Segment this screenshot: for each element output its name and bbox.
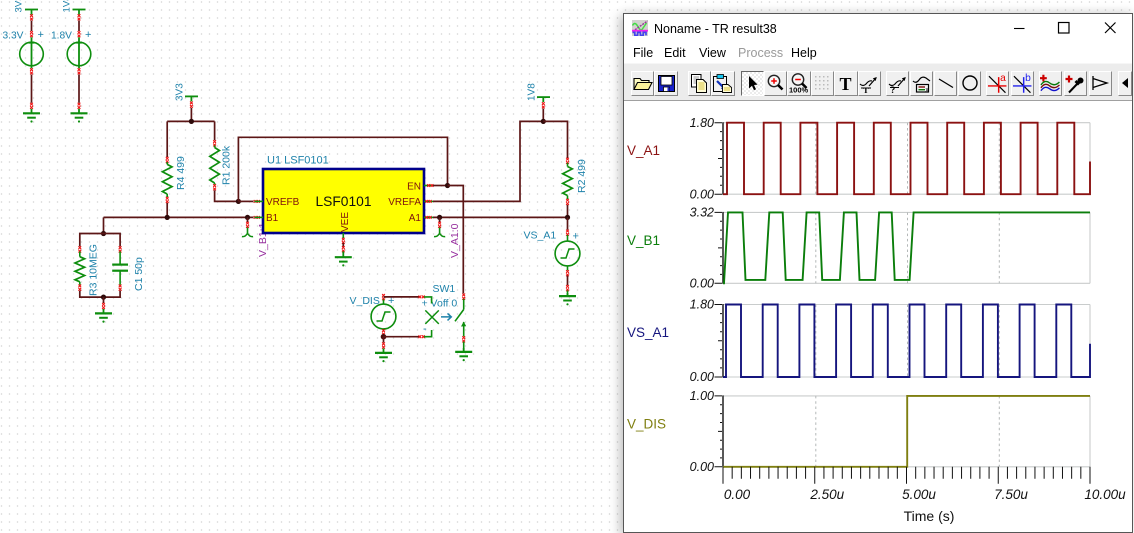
svg-text:3V3: 3V3 [175,83,186,101]
wire 3V3 to R1 [214,121,216,140]
junction RC bottom [101,295,106,300]
junction B1 probe [245,215,250,220]
plot V_A1 [627,116,1090,201]
junction V_DIS minus [381,334,387,340]
resistor R4 499 [162,156,187,203]
wire A1 net [433,216,568,218]
svg-text:100%: 100% [789,85,809,94]
ground (SW1) [463,348,465,352]
pin VEE stub [342,233,344,238]
wire V_DIS control bottom [384,336,420,338]
svg-text:0.00: 0.00 [690,370,714,384]
svg-text:VREFA: VREFA [388,197,421,208]
svg-text:VREFB: VREFB [266,197,300,208]
wire B1 down to RC [103,217,105,233]
wire RC top right [104,234,121,247]
pin EN stub [424,185,433,187]
junction RC top [101,231,106,236]
svg-text:EN: EN [407,182,421,193]
wire EN to junction [433,185,448,187]
ground (V_DIS) [383,348,385,353]
wire 3V3 to R4 [166,121,168,157]
svg-text:b: b [1025,73,1031,84]
svg-text:R3 10MEG: R3 10MEG [88,244,100,296]
switch SW1 [422,283,467,352]
wire V_DIS to ground [383,337,385,343]
ground (VS_A1) [567,293,569,296]
svg-text:5.00u: 5.00u [902,487,936,502]
svg-text:R4 499: R4 499 [175,156,187,190]
svg-text:1V8: 1V8 [62,0,73,13]
svg-text:1.80: 1.80 [690,298,714,312]
svg-text:1.8V: 1.8V [51,31,72,42]
svg-text:SW1: SW1 [433,283,456,295]
svg-text:LSF0101: LSF0101 [316,194,372,209]
svg-text:3.32: 3.32 [690,206,714,220]
svg-text:1V8: 1V8 [527,83,538,101]
IC U1 LSF0101 [255,155,434,239]
wire B1 net horizontal [104,216,254,218]
svg-text:3.3V: 3.3V [3,31,24,42]
svg-text:R2 499: R2 499 [576,159,588,193]
wire VREFA to 1V8 [433,121,542,201]
junction R4/B1 [165,215,170,220]
svg-text:-: - [423,323,427,335]
resistor R3 10MEG [75,244,100,296]
plot VS_A1 [627,298,1090,385]
wire 1V8 to R2 [543,121,567,158]
svg-text:C1 50p: C1 50p [133,257,145,291]
wire EN to SW1 [448,186,464,294]
junction VREFB [236,199,241,204]
wire R4 to B1 net [166,203,168,218]
svg-text:+: + [573,231,579,243]
svg-text:3V3: 3V3 [14,0,25,13]
pin A1 stub [424,216,433,218]
svg-text:0.00: 0.00 [690,277,714,291]
pin VREFA stub [424,200,433,202]
svg-text:2.50u: 2.50u [809,487,844,502]
wire R2 to A1 net [567,205,569,218]
voltage pin V_A1:0 [434,217,461,258]
wire 3V3 rail horizontal [167,120,214,122]
voltage source VG1 3.3V [3,10,44,123]
pin B1 stub [255,216,264,218]
svg-text:A1: A1 [409,213,422,224]
svg-text:T: T [863,85,869,93]
resistor R2 499 [563,158,588,205]
svg-text:V_B1: V_B1 [627,233,660,248]
junction 3V3 [189,119,194,124]
junction 1V8 [541,119,546,124]
voltage source VS_A1 [524,217,580,296]
wire VREFB to EN (top route) [238,137,447,201]
svg-text:7.50u: 7.50u [994,487,1028,502]
node 3V3 [175,83,199,122]
node 1V8 [527,83,551,122]
svg-text:V_A1:0: V_A1:0 [449,223,461,258]
svg-text:V_DIS: V_DIS [627,416,666,431]
wire to ground (RC) [103,297,105,303]
junction EN [445,183,450,188]
svg-text:+: + [85,29,91,41]
svg-text:+ Voff 0: + Voff 0 [422,298,458,310]
svg-text:?: ? [890,86,895,93]
wire R1 to VREFB [215,190,237,201]
resistor R1 200k [210,140,233,190]
svg-text:B1: B1 [266,213,279,224]
svg-text:1.00: 1.00 [690,389,714,403]
pin VREFB stub [255,200,264,202]
wire V_DIS control top [384,296,420,298]
svg-text:V_DIS: V_DIS [350,295,380,307]
svg-text:x: x [925,87,928,93]
x axis [723,467,1126,524]
svg-text:Time (s): Time (s) [904,508,955,524]
voltage pin V_B1:1 [242,217,269,257]
svg-text:1.80: 1.80 [690,116,714,130]
svg-text:R1 200k: R1 200k [221,145,233,185]
voltage source V_DIS [350,294,396,337]
voltage source VG2 1.8V [51,10,91,123]
svg-text:VS_A1: VS_A1 [524,230,557,242]
svg-text:0.00: 0.00 [690,187,714,201]
svg-text:VEE: VEE [340,212,351,232]
svg-text:U1 LSF0101: U1 LSF0101 [267,155,329,167]
svg-text:VS_A1: VS_A1 [627,325,669,340]
ground (VEE) [342,251,344,257]
capacitor C1 50p [112,246,145,291]
wire VREFB to pin [238,200,253,202]
svg-text:+: + [38,29,44,41]
plot V_B1 [627,206,1090,291]
VEE pin markers [342,238,345,241]
wire RC top left [80,234,104,247]
plot V_DIS [627,389,1090,474]
ground (RC loop) [103,309,105,313]
svg-text:10.00u: 10.00u [1084,487,1126,502]
svg-text:a: a [1000,73,1006,84]
svg-text:T: T [840,75,852,92]
junction A1 probe [437,215,442,220]
svg-text:0.00: 0.00 [724,487,751,502]
wire RC bottom [80,291,120,298]
svg-text:0.00: 0.00 [690,460,714,474]
svg-text:V_A1: V_A1 [627,143,660,158]
junction R2/A1 [565,215,570,220]
